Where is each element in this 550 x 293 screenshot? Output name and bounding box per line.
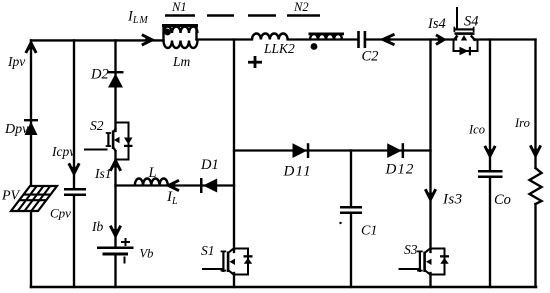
- svg-text:Ipv: Ipv: [7, 54, 25, 69]
- svg-text:Is4: Is4: [427, 16, 446, 32]
- svg-text:S1: S1: [201, 243, 215, 258]
- svg-text:Is1: Is1: [94, 166, 112, 181]
- svg-text:S4: S4: [464, 14, 479, 30]
- svg-text:N2: N2: [293, 0, 309, 14]
- svg-text:D11: D11: [283, 164, 312, 180]
- svg-text:L: L: [148, 165, 157, 181]
- svg-text:Ib: Ib: [91, 219, 103, 234]
- svg-text:Cpv: Cpv: [50, 206, 71, 221]
- svg-text:D12: D12: [385, 162, 415, 178]
- svg-text:N1: N1: [171, 0, 187, 14]
- svg-text:LLK2: LLK2: [263, 41, 295, 56]
- svg-text:C2: C2: [362, 49, 379, 65]
- svg-text:Vb: Vb: [140, 247, 154, 261]
- svg-text:C1: C1: [361, 224, 377, 239]
- svg-text:Co: Co: [494, 192, 511, 208]
- svg-text:Is3: Is3: [442, 192, 463, 208]
- svg-text:Dpv: Dpv: [4, 122, 29, 137]
- svg-text:Lm: Lm: [172, 54, 191, 69]
- svg-text:Ico: Ico: [468, 123, 485, 137]
- svg-text:D1: D1: [200, 157, 219, 173]
- svg-text:D2: D2: [90, 67, 109, 83]
- svg-text:S2: S2: [90, 118, 104, 133]
- svg-text:PV: PV: [1, 189, 21, 204]
- svg-text:S3: S3: [404, 242, 418, 257]
- svg-text:Iro: Iro: [514, 116, 530, 130]
- svg-text:Icpv: Icpv: [51, 144, 75, 159]
